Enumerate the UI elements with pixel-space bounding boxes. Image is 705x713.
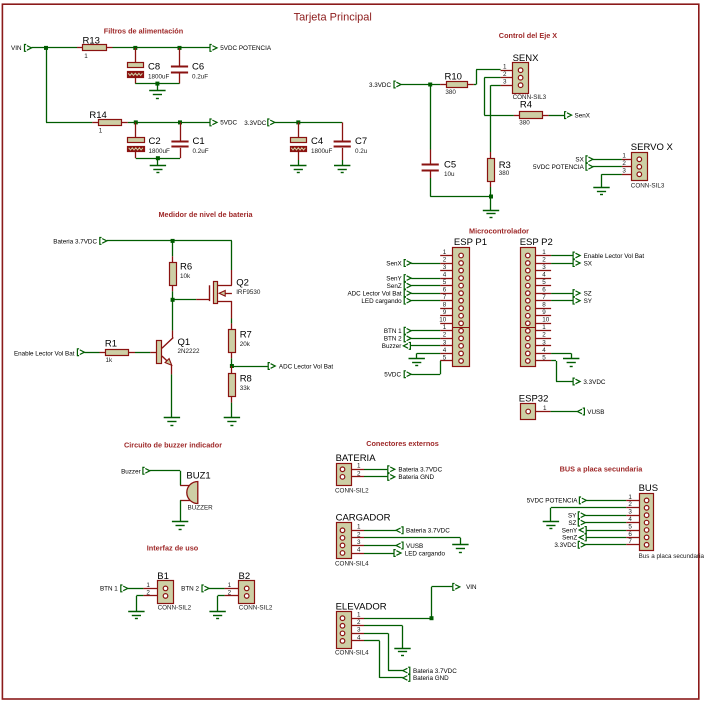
svg-text:3: 3	[542, 264, 546, 271]
wire C2 C1 bottoms	[136, 158, 180, 160]
terminal BTN 2	[181, 585, 209, 593]
wire BUZ1 to ground	[180, 500, 182, 522]
svg-text:3: 3	[628, 509, 632, 516]
wire R4 to SenX terminal	[549, 115, 565, 117]
terminal Bateria 3.7VDC elevador	[403, 667, 457, 675]
connector B1 CONN-SIL2	[143, 571, 191, 612]
svg-text:ELEVADOR: ELEVADOR	[336, 601, 387, 612]
junction node at C8	[133, 46, 137, 50]
wire ELEVADOR pin 4 to Bateria GND	[364, 641, 403, 678]
svg-text:0.2uF: 0.2uF	[193, 148, 209, 155]
junction node filter1 ground	[155, 82, 159, 86]
svg-text:2: 2	[443, 256, 447, 263]
svg-text:8: 8	[443, 302, 447, 309]
svg-text:BTN 2: BTN 2	[181, 586, 199, 593]
svg-text:CONN-SIL2: CONN-SIL2	[335, 488, 369, 495]
junction node R6 bottom gate	[171, 298, 175, 302]
svg-text:7: 7	[443, 294, 447, 301]
svg-text:2: 2	[628, 501, 632, 508]
svg-text:Q2: Q2	[236, 278, 249, 289]
ground R8	[224, 418, 240, 426]
svg-text:SZ: SZ	[584, 290, 592, 297]
terminal BTN 2 to ESP P1 pin 12	[384, 335, 440, 343]
svg-text:SX: SX	[584, 260, 593, 267]
svg-text:5: 5	[443, 279, 447, 286]
wire VIN to R13	[32, 47, 78, 49]
svg-text:BUS a placa secundaria: BUS a placa secundaria	[560, 465, 644, 474]
svg-text:Q1: Q1	[178, 337, 191, 348]
svg-text:Bateria 3.7VDC: Bateria 3.7VDC	[53, 238, 97, 245]
svg-text:3.3VDC: 3.3VDC	[244, 120, 267, 127]
svg-text:ESP32: ESP32	[519, 394, 549, 405]
ground Q1	[164, 418, 180, 426]
wire C8 C6 bottoms	[135, 83, 179, 85]
svg-text:5VDC: 5VDC	[220, 120, 237, 127]
ground C7	[334, 160, 350, 173]
terminal SenZ to ESP P1 pin 5	[387, 282, 441, 290]
connector BATERIA CONN-SIL2	[335, 453, 376, 494]
svg-text:10: 10	[542, 317, 550, 324]
svg-text:2: 2	[622, 160, 626, 167]
wire R6 junction down to Q1 collector	[172, 300, 174, 331]
svg-text:5VDC: 5VDC	[384, 372, 401, 379]
svg-text:1: 1	[543, 405, 547, 412]
svg-text:CONN-SIL3: CONN-SIL3	[631, 182, 665, 189]
ground filter row2	[150, 158, 166, 172]
svg-text:Enable Lector Vol Bat: Enable Lector Vol Bat	[14, 350, 75, 357]
svg-text:LED cargando: LED cargando	[405, 550, 446, 557]
svg-text:CONN-SIL2: CONN-SIL2	[158, 604, 192, 611]
svg-text:10: 10	[439, 317, 447, 324]
ground ESP P1	[409, 358, 425, 366]
svg-text:Buzzer: Buzzer	[382, 343, 402, 350]
wire C5 bottom to R3 bottom	[430, 196, 491, 198]
svg-text:4: 4	[628, 516, 632, 523]
svg-text:4: 4	[542, 271, 546, 278]
svg-text:3.3VDC: 3.3VDC	[369, 82, 392, 89]
connector SERVO X CONN-SIL3	[622, 142, 674, 190]
svg-text:C7: C7	[355, 136, 367, 147]
wire BUS pin 2 to ground	[551, 508, 627, 522]
terminal 3.3VDC bus	[554, 541, 626, 549]
ground B2	[209, 611, 225, 619]
wire 3.3VDC to R10	[401, 84, 440, 86]
wire ESP P2 pin 14 to ground	[551, 353, 571, 359]
terminal BTN 1 to ESP P1 pin 11	[384, 327, 440, 335]
resistor R14	[89, 110, 127, 135]
wire BTN 2 to B2 pin 1	[209, 588, 225, 590]
svg-text:C2: C2	[149, 136, 161, 147]
wire SERVO X pin 3 to ground	[602, 174, 622, 187]
svg-text:1: 1	[99, 128, 103, 135]
svg-text:2: 2	[228, 589, 232, 596]
connector ESP P1	[439, 237, 487, 366]
resistor R3 380	[488, 152, 511, 197]
svg-text:Control del Eje X: Control del Eje X	[499, 31, 558, 40]
terminal SenX to ESP P1 pin 2	[386, 260, 440, 268]
svg-text:C4: C4	[311, 136, 323, 147]
svg-text:BUZ1: BUZ1	[186, 470, 210, 481]
svg-text:2N2222: 2N2222	[178, 348, 201, 355]
svg-text:3.3VDC: 3.3VDC	[583, 379, 606, 386]
wire divider to ADC terminal	[232, 366, 268, 368]
svg-text:BTN 1: BTN 1	[100, 586, 118, 593]
wire 5VDC POTENCIA to SERVO X pin 2	[593, 166, 622, 168]
svg-text:380: 380	[445, 89, 456, 96]
svg-text:SX: SX	[575, 157, 584, 164]
terminal SenZ bus	[562, 534, 626, 542]
terminal 3.3VDC filter	[244, 119, 275, 127]
svg-text:7: 7	[628, 538, 632, 545]
svg-text:3: 3	[443, 264, 447, 271]
svg-text:20k: 20k	[240, 341, 251, 348]
terminal VUSB	[577, 408, 604, 416]
junction node filter2 ground	[156, 156, 160, 160]
svg-text:C6: C6	[192, 62, 204, 73]
svg-text:CARGADOR: CARGADOR	[336, 513, 391, 524]
svg-text:1: 1	[228, 582, 232, 589]
capacitor C4 1800uF	[291, 122, 333, 160]
terminal ADC Lector Vol Bat	[268, 363, 333, 371]
svg-text:C1: C1	[193, 136, 205, 147]
wire ESP P1 pin 15 to 5VDC	[411, 361, 440, 375]
wire ESP P2 pin 15 to 3.3VDC	[551, 361, 573, 382]
wire ELEVADOR pin 1 to VIN	[364, 618, 432, 620]
section label Circuito de buzzer indicador	[124, 441, 222, 450]
svg-text:BTN 2: BTN 2	[384, 336, 402, 343]
svg-text:SenY: SenY	[386, 275, 402, 282]
resistor R4 380	[514, 100, 549, 127]
svg-text:10u: 10u	[444, 171, 455, 178]
svg-text:1: 1	[622, 153, 626, 160]
terminal 5VDC	[210, 119, 238, 127]
wire VIN down to R14 row	[46, 48, 92, 123]
terminal VIN	[11, 45, 32, 53]
svg-text:3: 3	[443, 339, 447, 346]
resistor R10 380	[440, 71, 474, 96]
terminal SX from ESP P2 pin 2	[551, 260, 593, 268]
wire Bateria rail	[107, 240, 232, 242]
svg-text:2: 2	[443, 332, 447, 339]
connector ESP32	[519, 394, 551, 420]
section label Conectores externos	[366, 439, 439, 448]
svg-text:VIN: VIN	[466, 584, 477, 591]
junction node at C4	[296, 120, 300, 124]
svg-text:9: 9	[443, 309, 447, 316]
svg-text:B1: B1	[157, 571, 169, 582]
wire R14 to 5VDC terminal	[128, 122, 210, 124]
terminal SZ from ESP P2 pin 6	[551, 290, 592, 298]
terminal VUSB cargador	[364, 542, 423, 550]
svg-text:ADC Lector Vol Bat: ADC Lector Vol Bat	[279, 363, 333, 370]
svg-text:1: 1	[542, 249, 546, 256]
connector ELEVADOR CONN-SIL4	[335, 601, 387, 656]
section label Interfaz de uso	[147, 543, 199, 552]
connector ESP P2	[520, 237, 553, 366]
svg-text:1800uF: 1800uF	[311, 148, 333, 155]
wire ESP32 to VUSB	[551, 411, 578, 413]
svg-text:2: 2	[357, 531, 361, 538]
svg-text:Tarjeta Principal: Tarjeta Principal	[294, 12, 372, 24]
wire gate	[173, 299, 210, 301]
ground servo	[593, 187, 609, 195]
svg-text:R7: R7	[240, 330, 252, 341]
ground B1	[128, 611, 144, 619]
svg-text:2: 2	[357, 619, 361, 626]
svg-text:1: 1	[357, 524, 361, 531]
svg-text:SY: SY	[568, 513, 577, 520]
ground elevador	[394, 648, 410, 656]
svg-text:Conectores externos: Conectores externos	[366, 439, 439, 448]
terminal Enable Lector Vol Bat	[14, 349, 84, 358]
terminal SenY to ESP P1 pin 4	[386, 275, 440, 283]
svg-text:SenX: SenX	[386, 260, 402, 267]
svg-text:Bus a placa secundaria: Bus a placa secundaria	[639, 553, 705, 560]
terminal 3.3VDC esp	[573, 378, 606, 386]
wire R1 to Q1 base	[135, 352, 157, 354]
svg-text:Enable Lector Vol Bat: Enable Lector Vol Bat	[584, 253, 645, 260]
terminal Buzzer from ESP P1 pin 13	[382, 342, 440, 350]
junction node at C6	[178, 46, 182, 50]
svg-text:1: 1	[443, 324, 447, 331]
svg-text:380: 380	[499, 170, 510, 177]
svg-text:4: 4	[443, 271, 447, 278]
svg-text:5: 5	[628, 523, 632, 530]
terminal Enable Lector Vol Bat from ESP P2 pin 1	[551, 252, 644, 260]
capacitor C6 0.2uF	[171, 48, 208, 84]
svg-text:7: 7	[542, 294, 546, 301]
ground ESP P2	[563, 358, 579, 366]
title Tarjeta Principal	[294, 12, 372, 24]
svg-text:1: 1	[443, 249, 447, 256]
svg-text:5: 5	[542, 354, 546, 361]
svg-text:5: 5	[542, 279, 546, 286]
wire Q1 emitter down	[171, 374, 173, 418]
svg-text:SenZ: SenZ	[387, 283, 402, 290]
svg-text:5VDC POTENCIA: 5VDC POTENCIA	[220, 45, 272, 52]
svg-text:LED cargando: LED cargando	[361, 298, 402, 305]
junction node VIN elevador	[430, 616, 434, 620]
svg-text:IRF9530: IRF9530	[236, 289, 261, 296]
terminal Bateria 3.7VDC cargador	[364, 527, 450, 535]
ground cargador	[452, 544, 468, 552]
svg-text:SenX: SenX	[575, 112, 591, 119]
wire R13 to 5VDC POTENCIA terminal	[113, 47, 210, 49]
svg-text:3: 3	[357, 539, 361, 546]
svg-text:5: 5	[443, 354, 447, 361]
svg-text:0.2uF: 0.2uF	[192, 73, 208, 80]
terminal VIN out	[453, 584, 477, 592]
terminal LED cargando out	[364, 550, 445, 558]
svg-text:VUSB: VUSB	[406, 543, 423, 550]
terminal 5VDC POTENCIA bus	[527, 497, 626, 505]
svg-text:2: 2	[146, 589, 150, 596]
terminal SY bus	[568, 512, 626, 520]
svg-text:8: 8	[542, 302, 546, 309]
capacitor C1 0.2uF	[171, 122, 208, 158]
svg-text:BTN 1: BTN 1	[384, 328, 402, 335]
svg-text:C8: C8	[148, 62, 160, 73]
wire ELEVADOR pin 3 to Bateria 3.7VDC	[364, 633, 403, 670]
svg-text:2: 2	[542, 332, 546, 339]
terminal 5VDC esp	[384, 371, 411, 379]
svg-text:Filtros de alimentación: Filtros de alimentación	[104, 27, 183, 36]
junction node R6 top	[171, 239, 175, 243]
svg-text:Buzzer: Buzzer	[121, 468, 141, 475]
svg-text:SZ: SZ	[568, 520, 576, 527]
ground filter row1	[149, 84, 165, 99]
svg-text:0.2u: 0.2u	[355, 148, 368, 155]
resistor R8 33k	[229, 366, 252, 418]
svg-text:R1: R1	[105, 339, 117, 350]
ground bus	[543, 521, 559, 528]
capacitor C2 1800uF	[128, 122, 171, 158]
svg-text:1800uF: 1800uF	[148, 73, 170, 80]
svg-text:5VDC POTENCIA: 5VDC POTENCIA	[533, 164, 585, 171]
resistor R1 1k	[100, 339, 136, 364]
resistor R13	[77, 35, 113, 60]
junction node VIN split	[44, 46, 48, 50]
svg-text:10k: 10k	[180, 273, 191, 280]
svg-text:BUZZER: BUZZER	[188, 505, 214, 512]
svg-text:1: 1	[503, 64, 507, 71]
resistor R6 10k	[170, 241, 193, 300]
svg-text:R13: R13	[83, 35, 100, 46]
wire rail down to Q2 drain	[231, 241, 233, 270]
junction node C5 top	[428, 83, 432, 87]
wire R10 to SENX pin 1	[474, 70, 501, 85]
svg-text:SENX: SENX	[513, 53, 540, 64]
terminal Bateria 3.7VDC	[53, 238, 107, 246]
wire ELEVADOR pin 2 to ground	[364, 626, 403, 649]
svg-text:3: 3	[357, 627, 361, 634]
ground control	[483, 197, 499, 218]
svg-text:SERVO X: SERVO X	[631, 142, 674, 153]
terminal 3.3VDC control	[369, 81, 401, 89]
svg-text:C5: C5	[444, 160, 456, 171]
ground C4	[290, 160, 306, 173]
buzzer BUZ1	[180, 470, 213, 511]
wire VIN to elevador	[432, 587, 453, 619]
svg-text:SenZ: SenZ	[562, 535, 577, 542]
wire Enable to R1	[84, 352, 99, 354]
terminal SenX	[565, 112, 591, 120]
svg-text:1k: 1k	[106, 357, 114, 364]
wire SX to SERVO X pin 1	[593, 159, 622, 161]
svg-text:Bateria GND: Bateria GND	[398, 474, 434, 481]
svg-text:SenY: SenY	[562, 527, 578, 534]
svg-text:1: 1	[146, 582, 150, 589]
svg-text:1800uF: 1800uF	[149, 148, 171, 155]
svg-text:R10: R10	[445, 71, 462, 82]
capacitor C5 10u	[422, 85, 457, 197]
svg-text:CONN-SIL2: CONN-SIL2	[239, 604, 273, 611]
transistor Q1 2N2222 NPN	[157, 330, 201, 374]
svg-text:ADC Lector Vol Bat: ADC Lector Vol Bat	[347, 290, 401, 297]
svg-text:3.3VDC: 3.3VDC	[554, 542, 577, 549]
wire 3.3VDC to C7	[275, 122, 342, 124]
svg-text:CONN-SIL4: CONN-SIL4	[335, 649, 369, 656]
section label Control del Eje X	[499, 31, 558, 40]
junction node ADC divider	[230, 364, 234, 368]
terminal Bateria GND elevador	[403, 675, 449, 683]
connector BUS	[626, 483, 704, 560]
svg-text:9: 9	[542, 309, 546, 316]
svg-text:6: 6	[628, 531, 632, 538]
svg-text:Bateria GND: Bateria GND	[413, 675, 449, 682]
connector SENX CONN-SIL3	[501, 53, 547, 101]
section label Filtros de alimentacion	[104, 27, 183, 36]
capacitor C7 0.2u	[334, 122, 368, 160]
svg-text:4: 4	[542, 347, 546, 354]
svg-text:1: 1	[357, 612, 361, 619]
svg-text:4: 4	[357, 634, 361, 641]
svg-text:ESP P1: ESP P1	[454, 237, 487, 248]
terminal ADC Lector Vol Bat to ESP P1 pin 6	[347, 290, 440, 298]
svg-text:4: 4	[357, 546, 361, 553]
svg-text:5VDC POTENCIA: 5VDC POTENCIA	[527, 498, 579, 505]
svg-text:BUS: BUS	[639, 483, 659, 494]
terminal Bateria GND out	[364, 473, 435, 481]
terminal Bateria 3.7VDC out	[364, 466, 443, 474]
terminal SenY bus	[562, 527, 626, 535]
svg-text:Medidor de nivel de bateria: Medidor de nivel de bateria	[158, 210, 253, 219]
svg-text:6: 6	[542, 287, 546, 294]
resistor R7 20k	[229, 323, 252, 366]
svg-text:3: 3	[503, 79, 507, 86]
svg-text:3: 3	[542, 339, 546, 346]
transistor Q2 IRF9530 PMOS	[210, 270, 261, 319]
ground buzzer	[172, 521, 188, 529]
wire SENX pin 2 to R4	[484, 78, 514, 116]
svg-text:2: 2	[542, 256, 546, 263]
junction node control ground	[489, 195, 493, 199]
svg-text:SY: SY	[584, 298, 593, 305]
wire CARGADOR pin 2 to ground	[364, 538, 461, 545]
svg-text:Interfaz de uso: Interfaz de uso	[147, 543, 199, 552]
svg-text:33k: 33k	[240, 385, 251, 392]
terminal LED cargando to ESP P1 pin 7	[361, 297, 440, 305]
wire BTN 1 to B1 pin 1	[128, 588, 144, 590]
svg-text:R6: R6	[180, 262, 192, 273]
svg-text:R4: R4	[520, 100, 532, 111]
svg-text:1: 1	[628, 494, 632, 501]
svg-text:B2: B2	[239, 571, 251, 582]
svg-text:CONN-SIL4: CONN-SIL4	[335, 561, 369, 568]
section label BUS a placa secundaria	[560, 465, 644, 474]
svg-text:Bateria 3.7VDC: Bateria 3.7VDC	[406, 528, 450, 535]
wire ESP P1 pin 14 to ground	[417, 353, 441, 358]
svg-text:Bateria 3.7VDC: Bateria 3.7VDC	[398, 467, 442, 474]
svg-text:380: 380	[519, 120, 530, 127]
svg-text:4: 4	[443, 347, 447, 354]
wire Buzzer to BUZ1	[150, 471, 181, 486]
svg-text:VUSB: VUSB	[587, 409, 604, 416]
svg-text:1: 1	[542, 324, 546, 331]
svg-text:R8: R8	[240, 374, 252, 385]
connector B2 CONN-SIL2	[225, 571, 273, 612]
wire SENX pin 3 to R3	[491, 85, 501, 152]
svg-text:2: 2	[357, 470, 361, 477]
svg-text:Circuito de buzzer indicador: Circuito de buzzer indicador	[124, 441, 222, 450]
svg-text:Bateria 3.7VDC: Bateria 3.7VDC	[413, 668, 457, 675]
wire B1 pin 2 to ground	[136, 596, 143, 612]
section label Medidor de nivel de bateria	[158, 210, 253, 219]
svg-text:VIN: VIN	[11, 45, 22, 52]
svg-text:2: 2	[503, 71, 507, 78]
capacitor C8 1800uF	[128, 48, 170, 84]
terminal SY from ESP P2 pin 7	[551, 297, 593, 305]
